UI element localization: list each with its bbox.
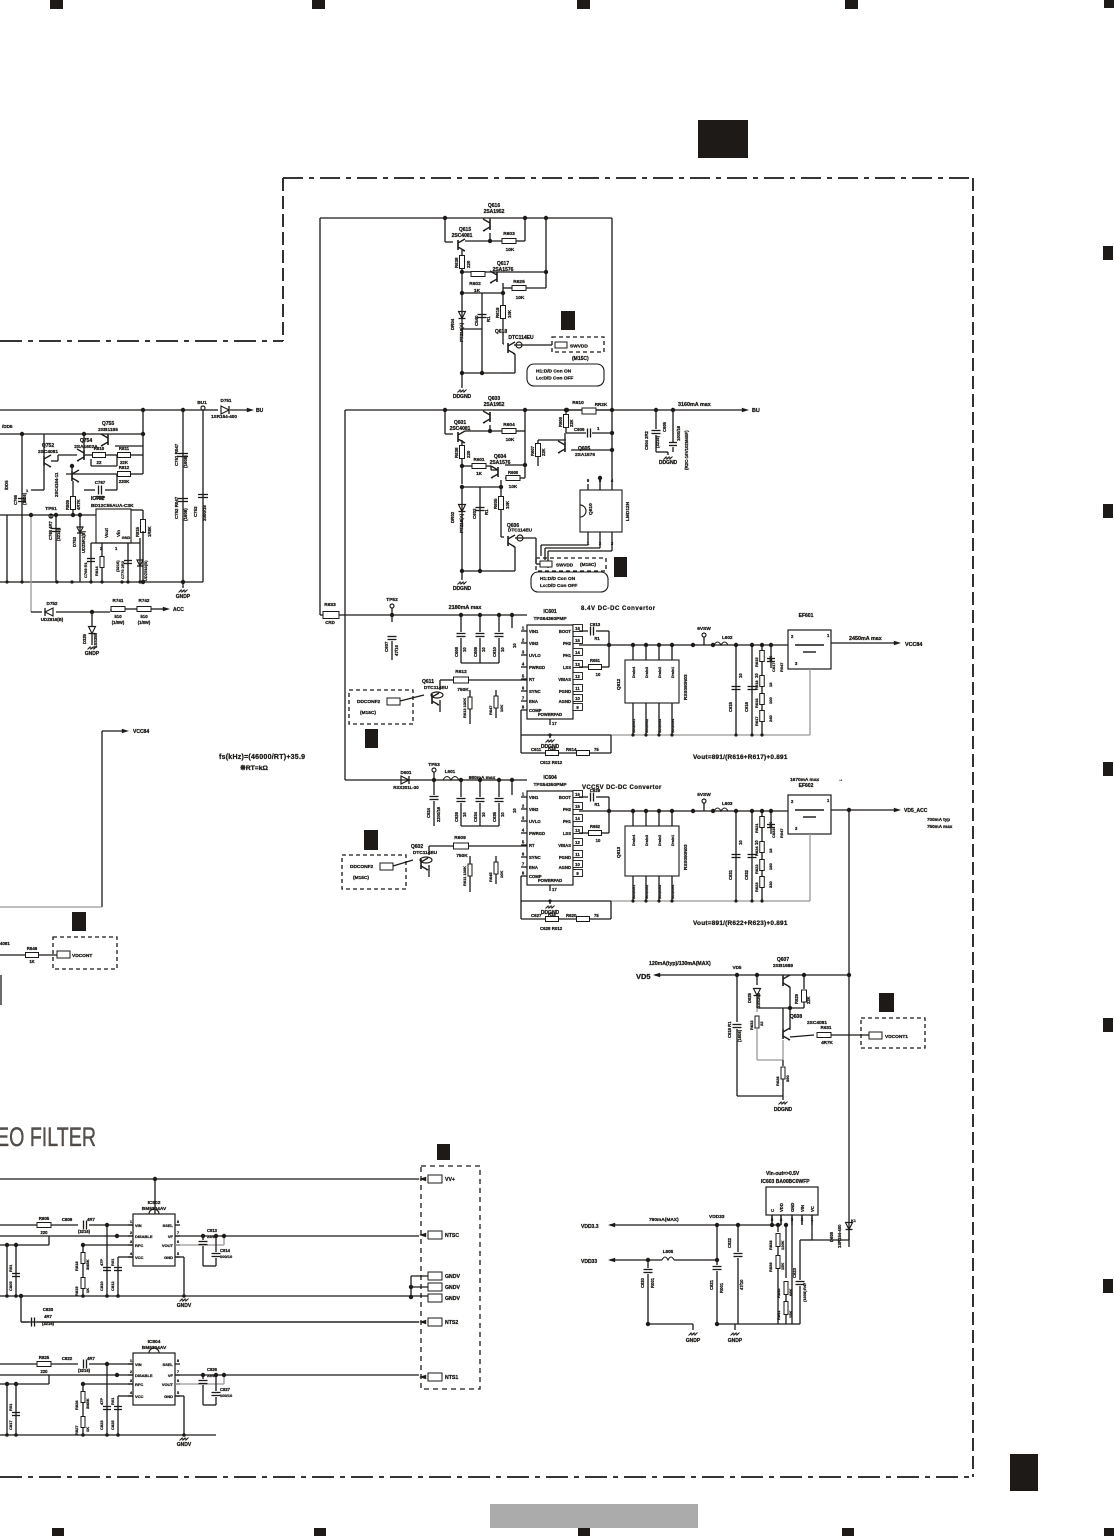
svg-text:15: 15 [575, 638, 580, 643]
svg-text:1K: 1K [29, 959, 34, 964]
svg-text:C613: C613 [590, 622, 601, 627]
svg-text:100: 100 [768, 697, 773, 704]
svg-text:(3216): (3216) [56, 528, 61, 541]
svg-text:75: 75 [594, 747, 599, 752]
svg-text:SWVDD: SWVDD [570, 344, 588, 350]
svg-text:NTSC: NTSC [445, 1233, 459, 1239]
svg-text:VOUT: VOUT [162, 1243, 174, 1248]
svg-text:100/10: 100/10 [220, 1254, 233, 1259]
svg-text:Vout=891/(R622+R623)+0.891: Vout=891/(R622+R623)+0.891 [693, 920, 788, 927]
svg-text:12: 12 [575, 674, 580, 679]
svg-text:VCC84: VCC84 [133, 729, 149, 735]
svg-text:2450mA max: 2450mA max [849, 636, 882, 642]
svg-text:1: 1 [26, 488, 29, 493]
svg-text:Source4: Source4 [671, 719, 675, 733]
svg-text:SWVDD: SWVDD [556, 563, 574, 568]
svg-text:R616: R616 [754, 698, 759, 708]
svg-text:Source3: Source3 [658, 885, 662, 899]
svg-text:R741: R741 [113, 598, 124, 603]
svg-text:R607: R607 [530, 445, 535, 456]
svg-text:TP51: TP51 [45, 506, 57, 512]
svg-text:R01: R01 [8, 1403, 13, 1411]
svg-text:5: 5 [177, 1251, 180, 1256]
svg-text:GNDP: GNDP [85, 651, 100, 657]
svg-text:4R7K: 4R7K [821, 1040, 833, 1045]
svg-text:10: 10 [500, 647, 505, 652]
svg-text:12: 12 [575, 840, 580, 845]
svg-text:RSS090N03: RSS090N03 [683, 844, 688, 870]
svg-text:22K: 22K [541, 448, 546, 456]
svg-text:R624: R624 [754, 846, 759, 856]
svg-text:Drain3: Drain3 [645, 835, 649, 846]
svg-text:VIN: VIN [800, 1205, 805, 1212]
svg-text:C612 R012: C612 R012 [540, 760, 563, 765]
svg-text:3M3K: 3M3K [85, 1398, 90, 1409]
svg-text:6: 6 [177, 1378, 180, 1383]
svg-text:R622: R622 [754, 864, 759, 874]
svg-text:C809: C809 [62, 1217, 73, 1222]
svg-text:2SB1689: 2SB1689 [773, 963, 793, 969]
svg-text:/DD5: /DD5 [4, 480, 9, 490]
svg-text:D751: D751 [221, 398, 232, 403]
svg-text:C769 R1: C769 R1 [83, 561, 88, 578]
svg-text:GNDP: GNDP [686, 1338, 701, 1344]
svg-text:IC804: IC804 [148, 1339, 161, 1345]
svg-text:POWERPAD: POWERPAD [538, 878, 562, 883]
svg-text:DTC114EU: DTC114EU [508, 335, 534, 341]
svg-text:10: 10 [738, 840, 743, 845]
svg-text:R629: R629 [794, 993, 799, 1004]
svg-text:1K: 1K [476, 471, 483, 476]
svg-text:R620: R620 [566, 913, 577, 918]
svg-text:R812: R812 [119, 465, 130, 470]
svg-text:IC601: IC601 [543, 609, 557, 615]
svg-text:H1:D/D Con ON: H1:D/D Con ON [540, 576, 576, 582]
svg-text:5: 5 [177, 1390, 180, 1395]
svg-text:Vout=891/(R616+R617)+0.891: Vout=891/(R616+R617)+0.891 [693, 754, 788, 761]
svg-text:IC604: IC604 [543, 775, 557, 781]
svg-text:L602: L602 [722, 635, 733, 640]
svg-text:1000/16: 1000/16 [676, 425, 681, 441]
svg-text:UDZ916(B): UDZ916(B) [41, 617, 64, 622]
svg-text:(1608): (1608) [802, 1290, 807, 1302]
svg-text:3300/16: 3300/16 [202, 505, 207, 521]
svg-text:R01: R01 [110, 1397, 115, 1405]
svg-text:GNDV: GNDV [445, 1296, 461, 1302]
svg-text:PTZ18(A): PTZ18(A) [459, 322, 464, 342]
svg-text:C826: C826 [207, 1367, 218, 1372]
svg-text:C810: C810 [99, 1281, 104, 1291]
svg-text:VDCONT1: VDCONT1 [885, 1034, 908, 1040]
svg-text:DR04: DR04 [450, 318, 455, 330]
svg-text:R647: R647 [488, 705, 493, 715]
svg-text:IC802: IC802 [148, 1200, 161, 1206]
svg-text:R610: R610 [572, 400, 584, 406]
svg-text:R601: R601 [474, 457, 485, 462]
svg-text:8: 8 [177, 1358, 180, 1363]
svg-text:BD12C55AUA-C3K: BD12C55AUA-C3K [91, 503, 134, 509]
svg-text:VDD33: VDD33 [581, 1259, 597, 1265]
svg-text:18: 18 [768, 682, 773, 687]
svg-text:C770 2R2: C770 2R2 [120, 560, 125, 579]
svg-text:330: 330 [768, 881, 773, 888]
svg-text:VD5_ACC: VD5_ACC [904, 808, 928, 814]
svg-text:R839: R839 [768, 1262, 773, 1272]
svg-text:GNDP: GNDP [176, 594, 191, 600]
svg-text:R15: R15 [548, 746, 556, 751]
svg-text:DDCONF2: DDCONF2 [350, 864, 374, 870]
svg-text:R1: R1 [594, 802, 600, 807]
svg-text:Q755: Q755 [102, 421, 114, 427]
svg-text:Q605: Q605 [578, 446, 590, 452]
svg-text:R638: R638 [454, 447, 459, 458]
svg-text:BU: BU [752, 408, 760, 414]
svg-text:1: 1 [115, 546, 118, 551]
svg-text:R617: R617 [754, 716, 759, 726]
svg-text:Vout: Vout [104, 528, 109, 538]
svg-text:10K: 10K [499, 871, 504, 878]
svg-text:TP52: TP52 [386, 597, 398, 603]
svg-text:C633: C633 [771, 828, 776, 838]
svg-text:R612: R612 [455, 669, 467, 675]
svg-text:PGND: PGND [559, 855, 571, 860]
svg-text:47/10: 47/10 [739, 1279, 744, 1290]
svg-text:VIN2: VIN2 [529, 807, 539, 812]
svg-text:UVLO: UVLO [529, 653, 541, 658]
svg-text:C624: C624 [426, 807, 431, 818]
svg-text:220: 220 [41, 1230, 49, 1235]
svg-text:GNDV: GNDV [445, 1285, 461, 1291]
svg-text:C814: C814 [220, 1248, 231, 1253]
svg-text:1SR154-400: 1SR154-400 [211, 414, 237, 419]
svg-text:750mA max: 750mA max [927, 824, 953, 829]
svg-text:ACC: ACC [173, 607, 184, 613]
svg-text:PH1: PH1 [563, 653, 572, 658]
svg-text:Q610: Q610 [588, 503, 594, 515]
svg-text:10: 10 [462, 812, 467, 817]
svg-text:11: 11 [575, 686, 580, 691]
svg-text:R623: R623 [754, 882, 759, 892]
svg-text:100/10: 100/10 [220, 1393, 233, 1398]
svg-text:10: 10 [481, 812, 486, 817]
svg-text:D752: D752 [47, 601, 58, 606]
svg-text:R603: R603 [503, 231, 515, 237]
svg-text:(1/8W): (1/8W) [112, 620, 125, 625]
svg-text:VV+: VV+ [445, 1177, 455, 1183]
svg-text:17: 17 [552, 887, 557, 892]
svg-text:10K: 10K [506, 247, 515, 253]
svg-text:11: 11 [575, 852, 580, 857]
svg-text:IC603 BA00BC0WFP: IC603 BA00BC0WFP [761, 1179, 810, 1185]
svg-text:PH2: PH2 [563, 807, 572, 812]
svg-text:R838: R838 [768, 1240, 773, 1250]
svg-text:120K: 120K [780, 1240, 785, 1250]
svg-text:C812: C812 [110, 1281, 115, 1291]
svg-text:22K: 22K [806, 996, 811, 1004]
svg-text:R604: R604 [503, 422, 515, 428]
svg-text:R01: R01 [110, 1258, 115, 1266]
svg-text:AGND: AGND [559, 865, 571, 870]
svg-text:7: 7 [177, 1230, 180, 1235]
svg-text:R611 130K: R611 130K [462, 866, 467, 886]
svg-text:GNDV: GNDV [177, 1303, 192, 1309]
svg-text:R841: R841 [776, 1310, 781, 1320]
svg-text:RT: RT [529, 677, 535, 682]
svg-text:R826: R826 [74, 1400, 79, 1410]
svg-text:SSEL: SSEL [163, 1362, 174, 1367]
svg-text:C822: C822 [727, 1237, 732, 1248]
svg-text:NTS1: NTS1 [445, 1375, 458, 1381]
svg-text:BOOT: BOOT [559, 629, 572, 634]
svg-text:1R8K: 1R8K [147, 526, 152, 537]
svg-text:VC: VC [810, 1206, 815, 1212]
svg-text:C605: C605 [662, 421, 667, 432]
svg-text:C631: C631 [728, 869, 733, 880]
svg-text:C823: C823 [792, 1267, 797, 1278]
svg-text:5: 5 [522, 674, 525, 679]
svg-text:Drain4: Drain4 [632, 667, 636, 678]
svg-text:Q618: Q618 [495, 329, 507, 335]
svg-text:C822: C822 [62, 1356, 73, 1361]
svg-text:C813: C813 [207, 1228, 218, 1233]
svg-text:D625: D625 [747, 992, 752, 1003]
svg-text:NTS2: NTS2 [445, 1320, 458, 1326]
svg-text:R818: R818 [74, 1261, 79, 1271]
svg-text:3: 3 [522, 816, 525, 821]
svg-text:R645: R645 [488, 872, 493, 882]
svg-text:C615: C615 [728, 701, 733, 712]
svg-text:10K: 10K [506, 437, 515, 443]
svg-text:L603: L603 [722, 801, 733, 806]
svg-text:5VSW: 5VSW [697, 792, 711, 798]
svg-text:C817: C817 [8, 1420, 13, 1430]
svg-text:13: 13 [575, 662, 580, 667]
svg-text:R742: R742 [139, 598, 150, 603]
svg-text:ENA: ENA [529, 865, 538, 870]
svg-text:10: 10 [596, 672, 601, 677]
svg-text:Q607: Q607 [777, 957, 789, 963]
svg-text:DDGND: DDGND [659, 460, 678, 466]
svg-text:C632: C632 [744, 869, 749, 880]
svg-text:790mA(MAX): 790mA(MAX) [649, 1217, 679, 1223]
svg-text:※RT=kΩ: ※RT=kΩ [240, 764, 269, 772]
svg-text:C616: C616 [744, 701, 749, 712]
svg-text:10: 10 [512, 643, 517, 648]
svg-text:C626: C626 [454, 811, 459, 822]
svg-text:4081: 4081 [0, 941, 10, 946]
svg-text:R625: R625 [513, 279, 525, 285]
svg-text:1: 1 [522, 792, 525, 797]
svg-text:10: 10 [596, 838, 601, 843]
svg-text:C628 R012: C628 R012 [540, 926, 563, 931]
svg-text:R840: R840 [776, 1288, 781, 1298]
svg-text:2SA1576: 2SA1576 [575, 452, 595, 458]
svg-text:(M15C): (M15C) [360, 710, 376, 716]
svg-text:R810: R810 [94, 446, 105, 451]
svg-text:VDD33: VDD33 [709, 1214, 725, 1220]
svg-text:(M15C): (M15C) [580, 562, 596, 568]
svg-text:7: 7 [522, 862, 525, 867]
svg-text:R805: R805 [39, 1216, 50, 1221]
svg-text:R646: R646 [27, 946, 38, 951]
svg-text:C609: C609 [473, 646, 478, 657]
svg-text:(M15C): (M15C) [353, 875, 369, 881]
svg-text:Vin: Vin [116, 530, 121, 537]
svg-text:4R7: 4R7 [87, 1356, 95, 1361]
svg-text:15K: 15K [780, 1263, 785, 1270]
svg-text:10K: 10K [507, 309, 512, 318]
svg-text:6: 6 [522, 686, 525, 691]
svg-text:R652: R652 [590, 824, 601, 829]
svg-text:Q602: Q602 [411, 844, 423, 850]
svg-text:SYNC: SYNC [529, 855, 541, 860]
svg-text:22K: 22K [569, 419, 574, 427]
svg-text:POWERPAD: POWERPAD [538, 712, 562, 717]
svg-text:GND: GND [122, 536, 131, 540]
svg-text:/DD5: /DD5 [2, 424, 13, 429]
svg-text:1SS355: 1SS355 [93, 632, 98, 648]
svg-text:3M3K: 3M3K [85, 1259, 90, 1270]
svg-text:R815: R815 [135, 526, 140, 537]
svg-text:DISABLE: DISABLE [135, 1234, 153, 1239]
svg-text:R47: R47 [802, 1282, 807, 1290]
svg-text:Vin-out=>0.5V: Vin-out=>0.5V [766, 1171, 800, 1177]
svg-text:R608: R608 [508, 470, 519, 475]
svg-text:C606: C606 [574, 427, 585, 432]
svg-text:17: 17 [552, 721, 557, 726]
svg-text:700mA typ: 700mA typ [927, 817, 950, 822]
svg-text:1K: 1K [85, 1288, 90, 1293]
svg-text:2200/16: 2200/16 [436, 806, 441, 822]
svg-text:750K: 750K [456, 853, 468, 859]
svg-text:RFC: RFC [135, 1243, 143, 1248]
svg-text:R628: R628 [775, 1076, 780, 1086]
svg-text:VD5: VD5 [636, 972, 651, 981]
svg-text:VOUT: VOUT [162, 1382, 174, 1387]
svg-text:220: 220 [41, 1369, 49, 1374]
svg-text:R631: R631 [821, 1025, 832, 1030]
svg-text:R827: R827 [74, 1425, 79, 1435]
svg-text:(3216): (3216) [78, 1368, 91, 1373]
svg-text:75: 75 [594, 913, 599, 918]
svg-text:DDCONF2: DDCONF2 [357, 699, 381, 705]
svg-text:RT: RT [529, 843, 535, 848]
svg-text:UDZ5R1(B): UDZ5R1(B) [81, 530, 86, 553]
svg-text:Source1: Source1 [632, 885, 636, 899]
svg-text:2180mA max: 2180mA max [449, 605, 482, 611]
svg-text:220: 220 [466, 450, 471, 458]
svg-text:7: 7 [177, 1369, 180, 1374]
svg-text:4: 4 [522, 828, 525, 833]
svg-text:2SA1952: 2SA1952 [484, 209, 505, 215]
svg-text:ENA: ENA [529, 699, 538, 704]
svg-text:10: 10 [738, 673, 743, 678]
svg-text:fs(kHz)=(46000/RT)+35.9: fs(kHz)=(46000/RT)+35.9 [219, 754, 305, 761]
svg-text:R609: R609 [454, 835, 466, 841]
svg-text:8.4V DC-DC Convertor: 8.4V DC-DC Convertor [581, 606, 656, 612]
svg-text:4R7: 4R7 [87, 1217, 95, 1222]
svg-text:RSX201L-30: RSX201L-30 [393, 785, 419, 790]
svg-text:Q613: Q613 [616, 846, 621, 858]
svg-text:UDZ516(B): UDZ516(B) [143, 560, 148, 581]
svg-text:SYNC: SYNC [529, 689, 541, 694]
svg-text:L601: L601 [445, 769, 456, 774]
svg-text:VDD3.3: VDD3.3 [581, 1224, 599, 1230]
svg-text:C602: C602 [472, 508, 477, 519]
svg-text:RR2K: RR2K [595, 402, 608, 407]
svg-text:DTC114EU: DTC114EU [508, 528, 533, 534]
svg-text:16: 16 [575, 626, 580, 631]
svg-text:AGND: AGND [559, 699, 571, 704]
svg-text:10: 10 [512, 808, 517, 813]
svg-text:EO FILTER: EO FILTER [0, 1122, 96, 1152]
svg-text:R638: R638 [454, 257, 459, 268]
svg-text:BU: BU [256, 408, 264, 414]
svg-text:R606: R606 [558, 416, 563, 427]
svg-text:1SR154-400: 1SR154-400 [837, 1224, 842, 1248]
svg-text:R615: R615 [754, 657, 759, 667]
svg-text:68K: 68K [788, 1289, 793, 1296]
svg-text:Drain2: Drain2 [658, 667, 662, 678]
svg-text:(1608): (1608) [183, 508, 188, 521]
svg-text:2SC4081: 2SC4081 [452, 233, 473, 239]
svg-text:R1: R1 [486, 316, 491, 322]
svg-text:PTZ18(A): PTZ18(A) [459, 513, 464, 533]
svg-text:10: 10 [754, 840, 759, 845]
svg-text:10K: 10K [509, 484, 518, 489]
svg-text:R814: R814 [94, 566, 99, 576]
svg-text:750K: 750K [457, 687, 469, 693]
svg-text:SSEL: SSEL [163, 1223, 174, 1228]
svg-text:PWRGD: PWRGD [529, 665, 545, 670]
svg-text:10K: 10K [505, 500, 510, 509]
svg-text:C825: C825 [110, 1420, 115, 1430]
svg-text:Source4: Source4 [671, 885, 675, 899]
svg-text:IC752: IC752 [91, 496, 105, 502]
svg-text:UVLO: UVLO [529, 819, 541, 824]
svg-text:PH2: PH2 [563, 641, 572, 646]
svg-text:R632: R632 [749, 1020, 754, 1030]
svg-text:R047: R047 [779, 662, 784, 672]
svg-text:4: 4 [522, 662, 525, 667]
svg-text:C820: C820 [43, 1307, 54, 1312]
svg-text:VD5: VD5 [733, 965, 742, 970]
svg-text:CRD: CRD [325, 620, 335, 625]
svg-text:C768 4R7: C768 4R7 [48, 520, 53, 540]
svg-text:22: 22 [759, 1021, 764, 1026]
svg-text:EF602: EF602 [799, 783, 814, 789]
svg-text:PWRGD: PWRGD [529, 831, 545, 836]
svg-text:C635: C635 [492, 811, 497, 822]
svg-text:C634: C634 [473, 811, 478, 822]
svg-text:16: 16 [575, 792, 580, 797]
svg-text:R602: R602 [469, 281, 481, 287]
svg-text:Source2: Source2 [645, 719, 649, 733]
svg-text:TPS54350PMP: TPS54350PMP [533, 782, 567, 788]
svg-text:R651: R651 [590, 658, 601, 663]
svg-text:BOOT: BOOT [559, 795, 572, 800]
svg-text:(3216): (3216) [78, 1229, 91, 1234]
svg-text:D753: D753 [72, 536, 77, 547]
svg-text:8: 8 [177, 1219, 180, 1224]
svg-text:Q611: Q611 [422, 679, 434, 685]
svg-text:VBIAS: VBIAS [558, 843, 571, 848]
svg-text:R047: R047 [779, 828, 784, 838]
svg-text:DTC114EU: DTC114EU [413, 850, 438, 856]
svg-text:2SC4081: 2SC4081 [38, 449, 58, 455]
svg-text:C610: C610 [492, 646, 497, 657]
svg-text:Drain2: Drain2 [658, 835, 662, 846]
